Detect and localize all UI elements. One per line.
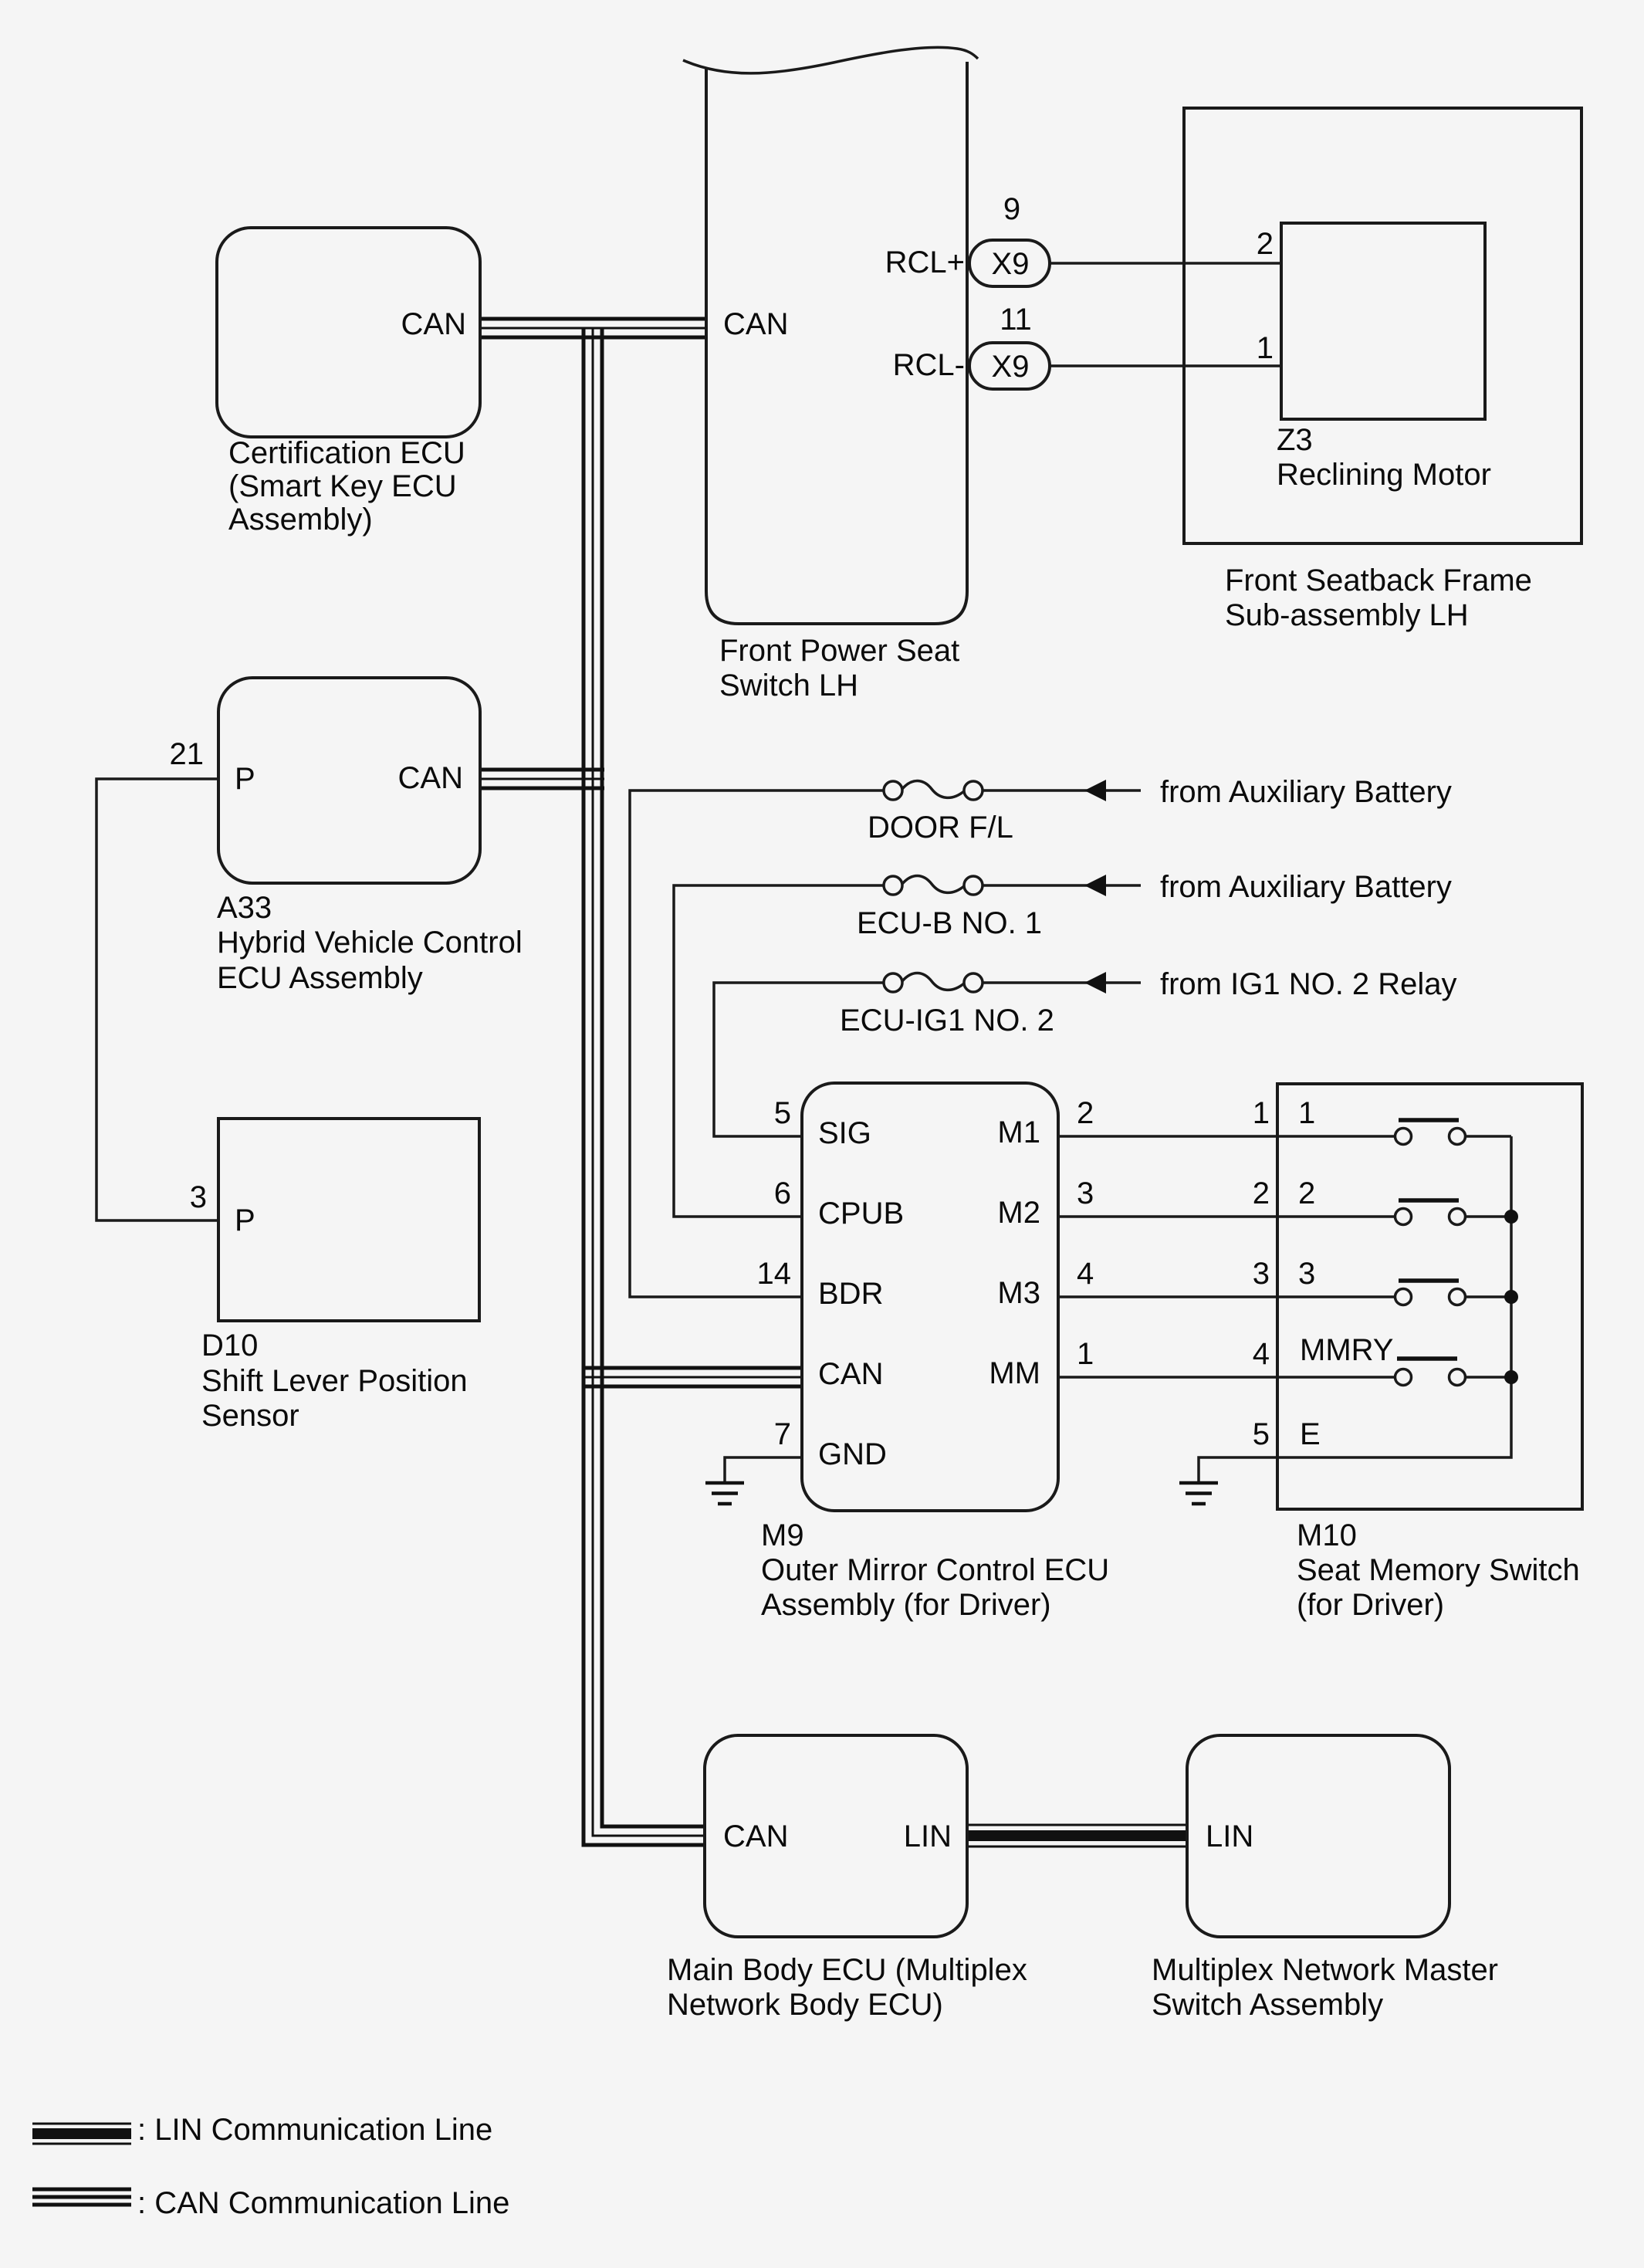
- svg-text:M9: M9: [761, 1518, 804, 1552]
- svg-text:from Auxiliary Battery: from Auxiliary Battery: [1160, 775, 1452, 809]
- svg-text:M3: M3: [997, 1276, 1040, 1310]
- svg-text:E: E: [1300, 1417, 1321, 1451]
- svg-text:M10: M10: [1297, 1518, 1357, 1552]
- svg-text:CAN: CAN: [818, 1357, 883, 1391]
- svg-text:1: 1: [1257, 331, 1274, 365]
- svg-text:LIN: LIN: [1206, 1819, 1253, 1853]
- svg-text:MMRY: MMRY: [1300, 1333, 1393, 1367]
- svg-text:Switch Assembly: Switch Assembly: [1152, 1988, 1383, 2022]
- svg-text:LIN: LIN: [904, 1819, 952, 1853]
- svg-text:6: 6: [774, 1176, 791, 1210]
- svg-text:from Auxiliary Battery: from Auxiliary Battery: [1160, 870, 1452, 904]
- svg-text:MM: MM: [989, 1356, 1040, 1390]
- svg-text:ECU Assembly: ECU Assembly: [217, 961, 423, 995]
- svg-text:2: 2: [1298, 1176, 1315, 1210]
- svg-text:21: 21: [170, 737, 205, 771]
- svg-text:CAN: CAN: [401, 307, 466, 341]
- svg-text:2: 2: [1257, 227, 1274, 261]
- svg-text:X9: X9: [992, 350, 1030, 384]
- svg-text:(for Driver): (for Driver): [1297, 1588, 1444, 1622]
- svg-text:: CAN Communication Line: : CAN Communication Line: [137, 2186, 509, 2220]
- svg-text:Assembly): Assembly): [228, 503, 373, 537]
- svg-text:BDR: BDR: [818, 1277, 883, 1311]
- svg-text:1: 1: [1077, 1337, 1094, 1371]
- svg-text:RCL-: RCL-: [893, 348, 965, 382]
- svg-text:CPUB: CPUB: [818, 1197, 904, 1230]
- svg-text:Multiplex Network Master: Multiplex Network Master: [1152, 1953, 1498, 1987]
- svg-text:5: 5: [774, 1096, 791, 1130]
- svg-text:Outer Mirror Control ECU: Outer Mirror Control ECU: [761, 1553, 1109, 1587]
- svg-text:GND: GND: [818, 1437, 887, 1471]
- svg-text:M2: M2: [997, 1196, 1040, 1230]
- svg-text:P: P: [235, 1203, 255, 1237]
- svg-text:Shift Lever Position: Shift Lever Position: [201, 1364, 468, 1398]
- svg-text:CAN: CAN: [398, 761, 463, 795]
- svg-text:P: P: [235, 762, 255, 796]
- svg-text:1: 1: [1298, 1096, 1315, 1130]
- svg-text:Front Power Seat: Front Power Seat: [719, 634, 959, 668]
- svg-text:11: 11: [1000, 303, 1032, 337]
- svg-text:SIG: SIG: [818, 1116, 871, 1150]
- svg-text:Hybrid Vehicle Control: Hybrid Vehicle Control: [217, 926, 523, 960]
- svg-text:Sensor: Sensor: [201, 1399, 299, 1433]
- svg-text:: LIN Communication Line: : LIN Communication Line: [137, 2113, 492, 2147]
- svg-text:CAN: CAN: [723, 307, 788, 341]
- svg-text:X9: X9: [992, 247, 1030, 281]
- svg-text:CAN: CAN: [723, 1819, 788, 1853]
- svg-text:4: 4: [1077, 1257, 1094, 1291]
- svg-text:DOOR F/L: DOOR F/L: [868, 811, 1013, 845]
- svg-text:5: 5: [1253, 1417, 1270, 1451]
- svg-text:RCL+: RCL+: [885, 245, 965, 279]
- svg-text:3: 3: [190, 1180, 207, 1214]
- svg-text:ECU-B NO. 1: ECU-B NO. 1: [857, 906, 1042, 940]
- svg-text:3: 3: [1298, 1257, 1315, 1291]
- svg-text:14: 14: [757, 1257, 792, 1291]
- svg-text:3: 3: [1077, 1176, 1094, 1210]
- svg-text:Switch LH: Switch LH: [719, 669, 858, 702]
- svg-text:2: 2: [1253, 1176, 1270, 1210]
- svg-text:Reclining Motor: Reclining Motor: [1277, 458, 1491, 492]
- svg-text:from IG1 NO. 2 Relay: from IG1 NO. 2 Relay: [1160, 967, 1457, 1001]
- svg-text:Assembly (for Driver): Assembly (for Driver): [761, 1588, 1051, 1622]
- svg-text:Main Body ECU (Multiplex: Main Body ECU (Multiplex: [667, 1953, 1027, 1987]
- svg-text:Network Body ECU): Network Body ECU): [667, 1988, 943, 2022]
- svg-text:(Smart Key ECU: (Smart Key ECU: [228, 469, 457, 503]
- svg-text:ECU-IG1 NO. 2: ECU-IG1 NO. 2: [840, 1004, 1054, 1038]
- svg-text:M1: M1: [997, 1115, 1040, 1149]
- svg-text:Seat Memory Switch: Seat Memory Switch: [1297, 1553, 1580, 1587]
- svg-text:Certification ECU: Certification ECU: [228, 436, 465, 470]
- svg-text:2: 2: [1077, 1096, 1094, 1130]
- svg-text:4: 4: [1253, 1337, 1270, 1371]
- svg-text:1: 1: [1253, 1096, 1270, 1130]
- svg-text:Sub-assembly LH: Sub-assembly LH: [1225, 598, 1469, 632]
- svg-text:A33: A33: [217, 891, 272, 925]
- svg-text:7: 7: [774, 1417, 791, 1451]
- svg-text:9: 9: [1003, 192, 1020, 226]
- svg-text:Z3: Z3: [1277, 423, 1313, 457]
- svg-text:D10: D10: [201, 1329, 258, 1362]
- svg-text:3: 3: [1253, 1257, 1270, 1291]
- svg-text:Front Seatback Frame: Front Seatback Frame: [1225, 564, 1532, 597]
